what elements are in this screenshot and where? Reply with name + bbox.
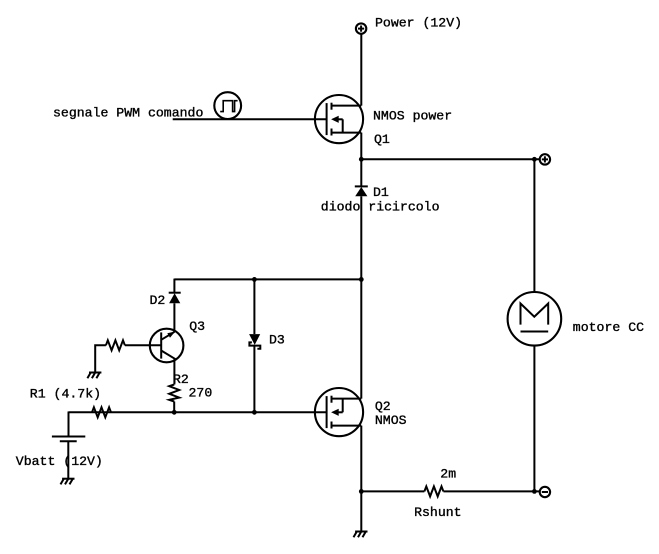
wire corner to D2	[173, 279, 175, 293]
svg-text:D3: D3	[269, 332, 285, 347]
node junction main bus / left rail	[359, 277, 364, 282]
node junction Q2 source / Rshunt	[359, 489, 364, 494]
battery Vbatt	[52, 437, 85, 442]
wire D3 bottom	[253, 346, 255, 413]
svg-text:Q1: Q1	[374, 132, 390, 147]
wire to motor plus	[361, 158, 539, 160]
svg-text:D2: D2	[150, 293, 166, 308]
wire R2 to bottom rail	[173, 402, 175, 413]
motor plus terminal	[540, 154, 550, 164]
resistor base	[106, 340, 125, 350]
resistor R2	[169, 385, 179, 402]
resistor R1	[92, 407, 111, 417]
transistor Q2 NMOS	[315, 388, 363, 436]
svg-text:270: 270	[189, 386, 213, 401]
svg-text:R2: R2	[173, 372, 189, 387]
svg-text:NMOS power: NMOS power	[373, 108, 452, 123]
power terminal	[356, 23, 366, 33]
ground main	[354, 532, 368, 538]
transistor Q1 NMOS power	[315, 95, 363, 143]
wire D1 anode down to Q2 drain	[360, 196, 362, 398]
wire Q1 source to D1	[360, 133, 362, 187]
diode D2	[169, 293, 181, 304]
node junction Q1 source / motor wire	[359, 157, 364, 162]
node junction motor bottom	[532, 489, 537, 494]
wire power to Q1 drain	[360, 34, 362, 106]
wire bottom rail / Q2 gate	[69, 411, 327, 413]
svg-text:R1 (4.7k): R1 (4.7k)	[30, 386, 101, 401]
resistor Rshunt	[424, 486, 443, 496]
diode D1	[355, 186, 368, 196]
svg-text:D1: D1	[373, 185, 389, 200]
wire Rshunt left	[361, 490, 424, 492]
svg-text:NMOS: NMOS	[375, 413, 407, 428]
wire motor top branch	[533, 159, 535, 292]
svg-text:Vbatt (12V): Vbatt (12V)	[16, 454, 103, 469]
wire rail to battery	[68, 412, 70, 437]
wire base resistor to ground	[95, 345, 106, 372]
ground battery	[61, 479, 75, 485]
svg-text:motore CC: motore CC	[573, 320, 644, 335]
transistor Q3	[150, 329, 184, 363]
node junction D3 top	[252, 277, 257, 282]
svg-text:Power (12V): Power (12V)	[375, 15, 462, 30]
node junction R2 bottom	[172, 410, 177, 415]
motor CC	[508, 292, 562, 346]
wire Q3 base	[125, 344, 161, 346]
motor minus terminal	[540, 487, 550, 497]
wire PWM to Q1 gate	[173, 118, 327, 120]
ground base	[87, 373, 101, 379]
wire Rshunt right	[443, 490, 539, 492]
svg-text:Q2: Q2	[375, 399, 391, 414]
PWM source	[214, 92, 241, 119]
zener diode D3	[249, 334, 260, 349]
wire D3 top	[253, 279, 255, 334]
wire D2 anode to Q3 emitter	[173, 303, 175, 332]
wire Q3 collector to R2	[173, 359, 175, 384]
svg-text:2m: 2m	[440, 466, 456, 481]
wire motor bottom branch	[533, 346, 535, 492]
wire battery to ground	[67, 441, 69, 478]
wire left rail top	[174, 278, 361, 280]
wire Q2 source down	[360, 426, 362, 532]
svg-text:Q3: Q3	[189, 319, 205, 334]
svg-text:diodo ricircolo: diodo ricircolo	[321, 200, 440, 215]
svg-text:Rshunt: Rshunt	[414, 505, 461, 520]
node junction motor top	[532, 157, 537, 162]
node junction D3 bottom	[252, 410, 257, 415]
